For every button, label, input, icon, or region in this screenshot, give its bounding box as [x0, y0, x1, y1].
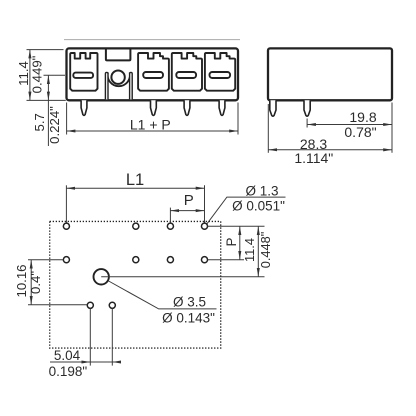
extension line L1+P right — [237, 103, 239, 135]
front view: connector body outline — [67, 48, 239, 100]
svg-text:L1 + P: L1 + P — [130, 117, 171, 133]
extension line side left — [267, 104, 269, 153]
svg-text:5.7: 5.7 — [32, 113, 47, 131]
extension line mounting hole row — [101, 276, 264, 278]
dimension arrow 5.04 left — [82, 361, 90, 363]
flange cradle right wall — [130, 72, 133, 99]
dimension line P right — [239, 226, 241, 260]
extension line pin2 — [306, 119, 308, 128]
leader line mounting hole 3.5 — [109, 281, 217, 309]
flange recess notch — [106, 49, 130, 61]
front view: faint top cover line — [64, 39, 240, 41]
hole row1 col3 — [167, 223, 173, 229]
pole 3 wire slot — [176, 72, 196, 78]
extension line body bottom — [27, 99, 66, 101]
svg-text:P: P — [184, 192, 194, 209]
svg-text:0.224": 0.224" — [47, 106, 62, 144]
flange cradle arc — [108, 72, 130, 86]
svg-text:10.16: 10.16 — [14, 264, 29, 297]
front solder pin 1 — [81, 100, 87, 115]
extension line L1 right / P right — [204, 185, 206, 223]
svg-text:5.04: 5.04 — [54, 348, 81, 363]
svg-text:L1: L1 — [126, 171, 144, 189]
dimension line 11.4 — [29, 50, 31, 101]
bottom hole 2 — [109, 302, 115, 308]
svg-text:1.114": 1.114" — [294, 150, 333, 166]
pole 4 clamp unit — [205, 53, 235, 91]
svg-text:0.198": 0.198" — [49, 364, 88, 379]
svg-text:Ø 0.143": Ø 0.143" — [162, 310, 215, 325]
extension line slot axis — [44, 74, 66, 76]
hole row2 col4 — [201, 257, 207, 263]
front solder pin 3 — [184, 100, 190, 115]
pole 3 clamp unit — [172, 53, 202, 91]
hole row2 col2 — [133, 257, 139, 263]
extension line L1+P left — [66, 103, 68, 135]
mounting hole 3.5 — [94, 269, 109, 284]
pole 2 clamp unit — [138, 53, 169, 91]
svg-text:11.4: 11.4 — [242, 238, 257, 262]
pole 1 wire slot — [73, 73, 93, 78]
side pin 2 — [304, 100, 310, 116]
extension line row2 right — [208, 259, 244, 261]
dimension line P top — [170, 210, 204, 212]
flange screw hole — [111, 71, 124, 84]
svg-text:0.449": 0.449" — [30, 55, 45, 93]
dimension line 5.7 tail — [47, 100, 49, 146]
front solder pin 4 — [219, 100, 225, 115]
svg-text:0.78": 0.78" — [344, 124, 376, 140]
dimension line 19.8 — [307, 124, 392, 126]
hole row2 col3 — [167, 257, 173, 263]
svg-text:Ø 0.051": Ø 0.051" — [232, 198, 285, 213]
pole 1 clamp unit — [70, 53, 97, 91]
svg-text:0.4": 0.4" — [28, 271, 43, 294]
extension line L1 left — [65, 185, 67, 222]
svg-text:Ø 3.5: Ø 3.5 — [173, 295, 206, 310]
extension line P col3 — [169, 208, 171, 223]
drilling plan outline (dashed) — [50, 221, 221, 348]
dimension arrow 5.04 right — [112, 361, 120, 363]
dimension line 10.16 — [30, 260, 32, 305]
hole row1 col2 — [133, 223, 139, 229]
pole 4 wire slot — [210, 72, 231, 78]
extension line bottom row left — [28, 304, 87, 306]
pole 2 wire slot — [143, 72, 163, 78]
extension line row1 right — [208, 225, 265, 227]
dimension line 5.7 — [47, 75, 49, 100]
dimension line L1 — [66, 187, 204, 189]
svg-text:19.8: 19.8 — [349, 109, 376, 125]
dimension line 11.4 right — [257, 226, 259, 277]
dimension line 28.3 — [268, 149, 392, 151]
bottom hole 1 — [87, 302, 93, 308]
extension line side right — [391, 103, 393, 153]
leader line hole dia 1.3 — [207, 197, 286, 224]
extension line bottom hole 2 — [111, 309, 113, 366]
svg-text:11.4: 11.4 — [16, 61, 31, 86]
svg-text:P: P — [224, 237, 239, 246]
hole row2 col1 — [63, 257, 69, 263]
extension line bottom hole 1 — [89, 309, 91, 366]
hole row1 col4 — [201, 223, 207, 229]
svg-text:Ø 1.3: Ø 1.3 — [245, 183, 278, 198]
side pin 1 — [270, 100, 276, 116]
side view body — [268, 48, 392, 100]
hole row1 col1 — [63, 223, 69, 229]
svg-text:0.448": 0.448" — [258, 232, 273, 269]
extension line row2 left — [28, 259, 63, 261]
flange cradle left wall — [105, 72, 108, 99]
dimension line 5.04 — [50, 361, 119, 363]
extension line body top — [27, 49, 64, 51]
dimension line L1+P — [67, 130, 238, 132]
front solder pin 2 — [151, 100, 157, 115]
